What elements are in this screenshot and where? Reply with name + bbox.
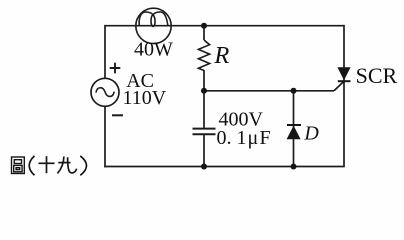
svg-text:0.1μF: 0.1μF (217, 127, 271, 149)
wire top right horizontal (171, 25, 344, 27)
wire left column upper (104, 25, 106, 79)
capacitor C1 bottom plate (193, 133, 216, 135)
wire right column (343, 25, 345, 167)
AC source V1 circle (91, 78, 119, 106)
plus sign (110, 63, 121, 74)
diode D cathode bar (287, 124, 301, 126)
junction dot mid diode (291, 88, 297, 94)
caption glyph jiu (nine) (57, 157, 76, 174)
resistor R1 zigzag (198, 40, 209, 71)
lamp chord (136, 25, 171, 27)
minus sign (112, 114, 123, 116)
AC sine wave (96, 88, 114, 97)
svg-text:SCR: SCR (356, 63, 398, 88)
SCR triangle (337, 67, 350, 80)
wire resistor column upper (203, 26, 205, 40)
svg-text:R: R (213, 42, 229, 69)
caption glyph shi (ten) (39, 156, 55, 173)
lamp circle (136, 8, 171, 43)
junction dot mid resistor (201, 88, 207, 94)
svg-text:40W: 40W (134, 38, 173, 60)
svg-text:110V: 110V (123, 87, 167, 109)
wire middle horizontal (gate net) (204, 90, 334, 92)
lamp filament loop (139, 12, 168, 26)
wire resistor column middle (203, 70, 205, 128)
svg-text:D: D (303, 123, 319, 145)
caption close paren (80, 156, 86, 175)
wire top left horizontal (105, 25, 136, 27)
wire left column lower (104, 106, 106, 167)
caption figure 19: glyph tu (picture) (12, 157, 25, 174)
wire bottom horizontal (104, 166, 345, 168)
junction dot bottom resistor (201, 164, 207, 170)
wire SCR gate diagonal (334, 81, 344, 91)
junction dot top resistor (201, 23, 207, 29)
junction dot bottom diode (291, 164, 297, 170)
caption open paren (29, 156, 34, 175)
capacitor C1 top plate (193, 128, 216, 130)
diode D triangle (287, 126, 301, 140)
wire diode column (293, 91, 295, 167)
SCR cathode bar (338, 80, 351, 82)
wire capacitor to bottom (203, 135, 205, 167)
